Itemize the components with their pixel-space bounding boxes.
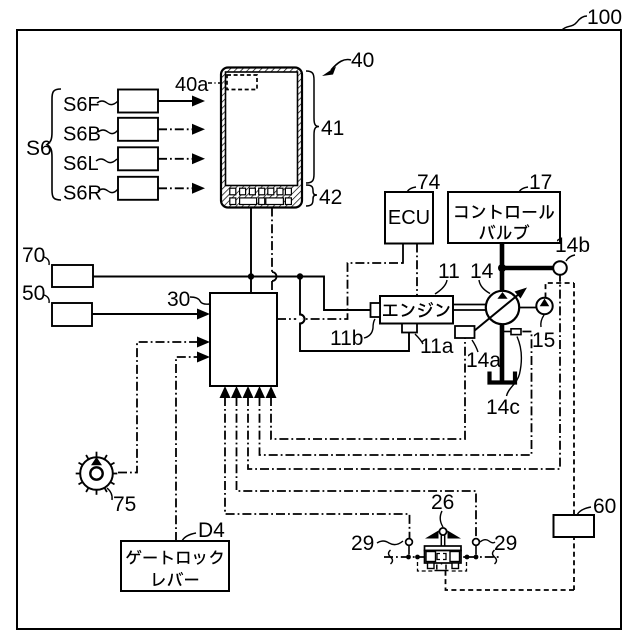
glyphs eng xyxy=(383,302,450,318)
label 11b xyxy=(330,319,375,350)
lock valve box 60 xyxy=(554,515,595,537)
dial 75 xyxy=(76,452,118,495)
wire S6R dash-dot arrow xyxy=(158,183,205,194)
label 29 left xyxy=(351,532,403,555)
camera window 40a dashed rect xyxy=(227,75,257,90)
svg-text:30: 30 xyxy=(167,288,190,311)
wire dial75 to box30 dash-dot xyxy=(118,337,210,473)
starter box 11b xyxy=(371,303,381,317)
lever body xyxy=(425,546,462,551)
wire 14a to box30 dash-dot xyxy=(266,339,466,440)
tank 14c symbol xyxy=(490,372,516,383)
pilot pump 15 triangle xyxy=(540,299,550,307)
svg-text:14a: 14a xyxy=(466,349,501,372)
wire S6L dash-dot arrow xyxy=(158,153,205,164)
label 11 xyxy=(435,260,460,294)
label S6B xyxy=(63,124,118,146)
svg-text:14c: 14c xyxy=(486,396,520,419)
box 70 xyxy=(52,265,93,287)
wire phone to box30 solid xyxy=(250,208,252,294)
engine box 11 xyxy=(380,296,453,324)
label 15 xyxy=(532,315,555,352)
wire junction300 down to 11a xyxy=(300,277,409,352)
label 70 xyxy=(22,244,49,267)
svg-text:11a: 11a xyxy=(420,335,454,358)
label S6R xyxy=(63,183,118,205)
label 14 xyxy=(470,260,494,294)
wire 14c sensor to box30 dash-dot xyxy=(254,332,532,456)
glyphs d42 xyxy=(154,572,199,586)
svg-text:17: 17 xyxy=(529,171,552,194)
pilot pump 15 circle xyxy=(536,298,552,314)
wire S6F arrow xyxy=(158,96,205,107)
wire 70 to junctions (horizontal) xyxy=(93,276,300,278)
break symbol left xyxy=(389,550,393,564)
svg-text:S6: S6 xyxy=(26,137,52,160)
lever ball xyxy=(439,528,446,535)
wire 14b to box30 dash-dot xyxy=(243,276,561,470)
gate lock lever box D4 xyxy=(121,541,229,591)
svg-text:75: 75 xyxy=(113,493,136,516)
pilot valve lever unit 26 xyxy=(351,528,517,571)
node thick junction xyxy=(498,264,506,272)
svg-text:41: 41 xyxy=(321,117,344,140)
brace 41 xyxy=(306,71,319,183)
svg-text:26: 26 xyxy=(431,491,454,514)
label 26 xyxy=(431,491,454,527)
discharge sensor 14c box xyxy=(503,329,521,335)
svg-text:S6L: S6L xyxy=(63,153,99,175)
pump 14 triangle xyxy=(497,292,507,299)
wire 29R to box30 dash-dot xyxy=(231,386,476,538)
label 74 xyxy=(407,171,441,194)
wire S6B dash-dot arrow xyxy=(158,124,205,135)
svg-text:29: 29 xyxy=(351,532,374,555)
29L sensor circle xyxy=(406,539,413,546)
label 60 xyxy=(577,495,616,518)
svg-text:100: 100 xyxy=(587,6,622,29)
dashed bracket under valves xyxy=(418,562,434,571)
label 14b xyxy=(555,234,590,261)
label 50 xyxy=(22,282,49,305)
svg-text:42: 42 xyxy=(319,186,342,209)
thick line to 14b circle xyxy=(502,266,553,271)
svg-text:11b: 11b xyxy=(330,327,363,350)
wire ECU to engine dash-dot xyxy=(416,244,418,297)
label 100 xyxy=(562,6,622,30)
svg-text:14: 14 xyxy=(470,260,494,283)
29R sensor circle xyxy=(473,539,480,546)
svg-text:50: 50 xyxy=(22,282,45,305)
sensor box S6B xyxy=(118,118,158,141)
svg-text:70: 70 xyxy=(22,244,45,267)
control valve box 17 xyxy=(448,192,560,243)
label 40a with dash-dot leader xyxy=(175,74,226,96)
smartphone keyboard 42 keys xyxy=(230,188,292,204)
label D4 xyxy=(182,519,225,542)
glyphs ctl1 xyxy=(455,205,554,219)
glyphs ctl2 xyxy=(479,224,529,240)
brace S6 group xyxy=(47,89,61,200)
svg-text:60: 60 xyxy=(593,495,616,518)
wire box30 to ECU dash-dot with hop xyxy=(277,263,403,319)
label 40 with curved arrow xyxy=(322,49,374,76)
hop mask and arc at 300,319 xyxy=(296,316,303,323)
svg-text:29: 29 xyxy=(494,532,517,555)
svg-text:40a: 40a xyxy=(175,74,209,96)
label 29 right xyxy=(480,532,517,555)
break symbol right xyxy=(493,550,497,564)
node at 251,276.5 xyxy=(248,273,254,279)
valve feet xyxy=(428,563,435,569)
wire 50 to box30 arrow xyxy=(92,309,210,320)
pump 14 diagonal arrow to regulator 14a xyxy=(474,288,527,332)
box 50 xyxy=(52,303,92,326)
svg-text:S6R: S6R xyxy=(63,183,102,205)
wire 29L to box30 dash-dot xyxy=(220,386,410,538)
label S6F xyxy=(63,94,118,116)
svg-text:11: 11 xyxy=(438,260,460,283)
glyphs d41 xyxy=(126,550,223,565)
svg-text:15: 15 xyxy=(532,329,555,352)
14b circle xyxy=(553,261,567,275)
sensor box S6R xyxy=(118,177,158,200)
svg-text:S6B: S6B xyxy=(63,124,101,146)
label 17 xyxy=(519,171,552,194)
brace 42 xyxy=(306,185,317,206)
svg-text:74: 74 xyxy=(417,171,441,194)
pilot dashed line bottom xyxy=(446,570,575,590)
label 11a xyxy=(415,334,454,358)
pump to pilot pump wire xyxy=(519,307,537,309)
controller box 30 xyxy=(210,293,277,386)
regulator box 14a xyxy=(455,326,475,338)
lever stem xyxy=(440,535,442,546)
ECU box 74 xyxy=(385,192,433,244)
wire junction300 to engine starter 11b xyxy=(300,277,371,311)
sensor box S6L xyxy=(118,147,158,170)
tank under lever xyxy=(435,565,449,571)
sensor box S6F xyxy=(118,90,158,113)
svg-text:14b: 14b xyxy=(555,234,590,257)
pump 14 circle xyxy=(486,291,519,324)
label 30 xyxy=(167,288,210,311)
svg-text:D4: D4 xyxy=(198,519,225,542)
svg-text:S6F: S6F xyxy=(63,94,100,116)
node dots on pilot line xyxy=(406,555,411,560)
pilot dashed line right down through 60 xyxy=(573,283,575,590)
engine-pump shaft xyxy=(453,304,486,306)
lever wing left xyxy=(425,531,439,539)
pilot line horizontal xyxy=(384,556,500,558)
thick line control valve to pump xyxy=(500,244,505,292)
node at 300,276.5 xyxy=(297,273,303,279)
lever wing right xyxy=(448,531,462,539)
label 14a xyxy=(466,340,501,372)
pilot dashed line 15 to top xyxy=(546,283,575,298)
label S6L xyxy=(63,153,117,175)
smartphone 40 body xyxy=(221,68,302,208)
thick line pump to tank xyxy=(500,324,505,381)
svg-text:ECU: ECU xyxy=(388,207,430,229)
wire ECU stub xyxy=(402,244,404,264)
label 14c xyxy=(486,337,521,420)
svg-text:40: 40 xyxy=(351,49,374,72)
label 75 xyxy=(107,488,136,516)
wire phone to box30 dash-dot with hop xyxy=(271,208,273,273)
sensor box 11a under engine xyxy=(402,324,417,333)
wire D4 to box30 dash-dot xyxy=(176,352,210,542)
